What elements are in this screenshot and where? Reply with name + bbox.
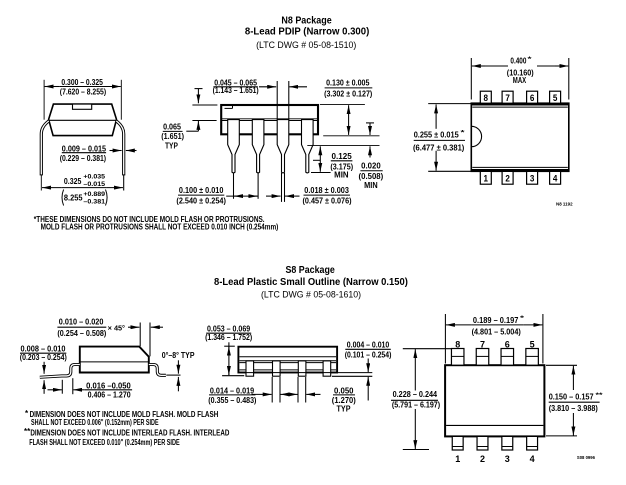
svg-text:SHALL NOT EXCEED 0.006" (0.152: SHALL NOT EXCEED 0.006" (0.152mm) PER SI…	[31, 418, 159, 427]
svg-text:MAX: MAX	[513, 76, 527, 85]
svg-text:(0.254 – 0.508): (0.254 – 0.508)	[57, 329, 106, 338]
svg-text:(3.810 – 3.988): (3.810 – 3.988)	[549, 404, 598, 413]
svg-text:0.010 – 0.020: 0.010 – 0.020	[59, 318, 104, 327]
svg-text:4: 4	[530, 454, 535, 464]
svg-text:**: **	[596, 393, 604, 399]
svg-text:(0.229 – 0.381): (0.229 – 0.381)	[60, 154, 107, 163]
svg-text:0.016 –0.050: 0.016 –0.050	[86, 381, 131, 390]
svg-text:(2.540 ± 0.254): (2.540 ± 0.254)	[176, 196, 226, 205]
svg-text:FLASH SHALL NOT EXCEED 0.010": FLASH SHALL NOT EXCEED 0.010" (0.254mm) …	[29, 438, 180, 447]
svg-text:+0.889: +0.889	[83, 191, 105, 198]
svg-text:2: 2	[480, 454, 485, 464]
svg-text:0.228 – 0.244: 0.228 – 0.244	[393, 390, 438, 399]
svg-text:(7.620 – 8.255): (7.620 – 8.255)	[60, 88, 107, 97]
svg-text:0.125: 0.125	[332, 152, 353, 161]
svg-text:(0.457 ± 0.076): (0.457 ± 0.076)	[303, 196, 352, 205]
svg-text:S8 Package: S8 Package	[286, 265, 336, 276]
svg-text:(1.346 – 1.752): (1.346 – 1.752)	[205, 333, 252, 342]
svg-text:4: 4	[553, 173, 558, 184]
svg-text:(0.508): (0.508)	[359, 172, 384, 181]
svg-text:–0.381: –0.381	[83, 199, 105, 206]
svg-text:× 45°: × 45°	[108, 323, 125, 332]
svg-text:0.008 – 0.010: 0.008 – 0.010	[21, 344, 67, 353]
svg-text:0.130 ± 0.005: 0.130 ± 0.005	[326, 78, 370, 87]
svg-text:0.065: 0.065	[163, 123, 182, 132]
svg-text:0.004 – 0.010: 0.004 – 0.010	[347, 340, 390, 349]
svg-text:8.255: 8.255	[64, 193, 83, 202]
svg-text:0.255 ± 0.015: 0.255 ± 0.015	[414, 130, 460, 139]
svg-text:TYP: TYP	[337, 404, 351, 413]
svg-text:8-Lead Plastic Small Outline (: 8-Lead Plastic Small Outline (Narrow 0.1…	[214, 277, 408, 288]
svg-text:TYP: TYP	[165, 141, 178, 150]
svg-text:6: 6	[530, 93, 535, 104]
svg-text:0.018 ± 0.003: 0.018 ± 0.003	[304, 186, 349, 195]
svg-text:3: 3	[505, 454, 510, 464]
svg-text:DIMENSION DOES NOT INCLUDE INT: DIMENSION DOES NOT INCLUDE INTERLEAD FLA…	[30, 429, 229, 438]
svg-text:5: 5	[530, 339, 535, 349]
svg-text:(0.355 – 0.483): (0.355 – 0.483)	[208, 396, 256, 405]
svg-text:7: 7	[505, 93, 510, 104]
svg-text:2: 2	[505, 173, 510, 184]
svg-text:(3.302 ± 0.127): (3.302 ± 0.127)	[324, 89, 373, 98]
svg-text:MIN: MIN	[334, 170, 349, 179]
svg-text:1: 1	[455, 454, 460, 464]
svg-text:0.300 – 0.325: 0.300 – 0.325	[61, 78, 103, 87]
svg-text:(0.101 – 0.254): (0.101 – 0.254)	[345, 351, 392, 360]
svg-text:0.050: 0.050	[334, 386, 354, 395]
svg-text:(6.477 ± 0.381): (6.477 ± 0.381)	[413, 144, 465, 153]
svg-text:+0.035: +0.035	[83, 174, 105, 181]
svg-text:(LTC DWG # 05-08-1610): (LTC DWG # 05-08-1610)	[261, 290, 361, 301]
svg-text:7: 7	[480, 339, 485, 349]
svg-text:(5.791 – 6.197): (5.791 – 6.197)	[392, 401, 441, 410]
svg-text:0.406 – 1.270: 0.406 – 1.270	[88, 391, 132, 400]
svg-text:8-Lead PDIP (Narrow 0.300): 8-Lead PDIP (Narrow 0.300)	[245, 26, 369, 37]
svg-text:8: 8	[484, 93, 489, 104]
svg-text:0.325: 0.325	[64, 177, 82, 186]
svg-text:(LTC DWG # 05-08-1510): (LTC DWG # 05-08-1510)	[256, 40, 356, 51]
svg-text:6: 6	[505, 339, 510, 349]
svg-text:N8 Package: N8 Package	[281, 16, 332, 27]
svg-text:MOLD FLASH OR PROTRUSIONS SHAL: MOLD FLASH OR PROTRUSIONS SHALL NOT EXCE…	[41, 222, 279, 231]
svg-text:(1.651): (1.651)	[161, 132, 184, 141]
svg-text:0.150 – 0.157: 0.150 – 0.157	[549, 393, 594, 402]
svg-text:N8 1192: N8 1192	[556, 201, 573, 207]
svg-text:5: 5	[553, 93, 558, 104]
svg-text:MIN: MIN	[364, 181, 378, 190]
svg-text:(4.801 – 5.004): (4.801 – 5.004)	[472, 327, 522, 336]
svg-text:1: 1	[484, 173, 489, 184]
svg-text:(0.203 – 0.254): (0.203 – 0.254)	[20, 353, 67, 362]
svg-text:0.100 ± 0.010: 0.100 ± 0.010	[179, 186, 224, 195]
svg-text:S08 0996: S08 0996	[577, 455, 595, 461]
svg-text:0.400: 0.400	[510, 56, 527, 65]
svg-text:8: 8	[455, 339, 460, 349]
svg-text:0.020: 0.020	[361, 161, 381, 170]
svg-text:(1.143 – 1.651): (1.143 – 1.651)	[213, 86, 259, 95]
svg-text:–0.015: –0.015	[83, 181, 105, 188]
svg-text:0°–8° TYP: 0°–8° TYP	[162, 351, 195, 360]
svg-text:3: 3	[530, 173, 535, 184]
svg-text:0.014 – 0.019: 0.014 – 0.019	[210, 386, 255, 395]
svg-text:0.189 – 0.197: 0.189 – 0.197	[473, 316, 519, 325]
svg-text:0.009 – 0.015: 0.009 – 0.015	[62, 145, 107, 154]
